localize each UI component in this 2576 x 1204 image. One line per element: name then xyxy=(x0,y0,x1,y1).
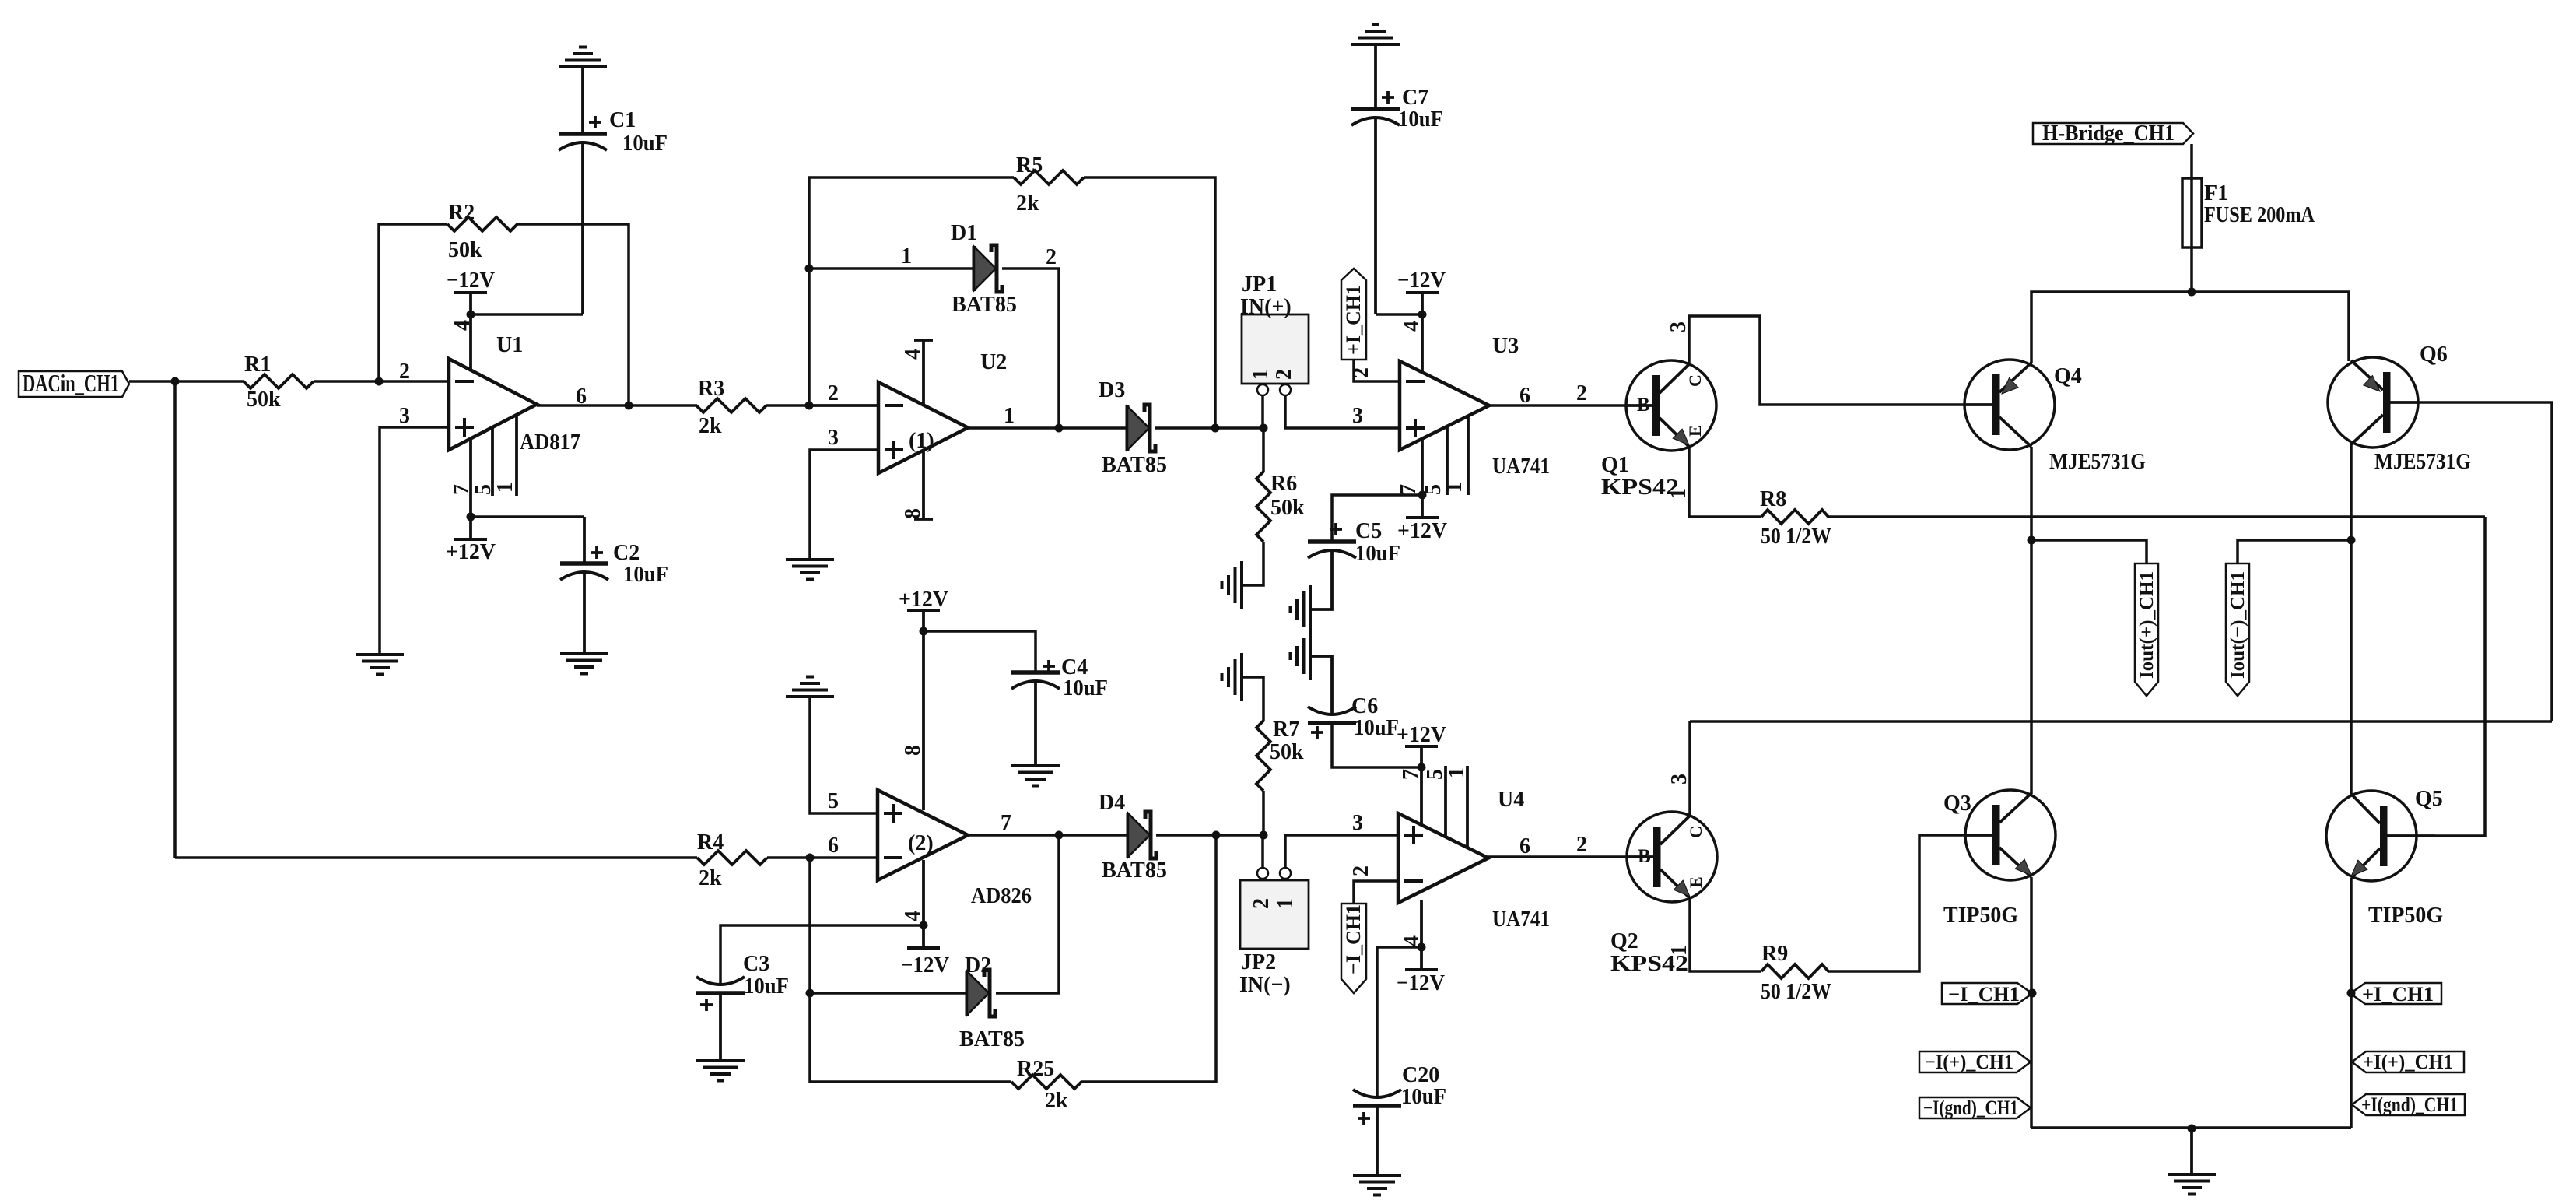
wire Q2 collector riser xyxy=(1688,721,1691,816)
svg-text:1: 1 xyxy=(1442,482,1467,493)
svg-text:D1: D1 xyxy=(951,221,977,245)
power +12V U3 xyxy=(1397,495,1447,543)
junction D2 riser on node xyxy=(1055,831,1064,840)
wire C1 stem lower xyxy=(581,142,584,314)
svg-text:UA741: UA741 xyxy=(1492,455,1550,479)
svg-text:C1: C1 xyxy=(609,108,636,132)
svg-text:U1: U1 xyxy=(496,333,523,357)
svg-text:50k: 50k xyxy=(247,388,281,412)
svg-text:5: 5 xyxy=(1423,769,1447,780)
capacitor C5 10uF xyxy=(1308,519,1400,566)
svg-text:AD817: AD817 xyxy=(520,430,580,455)
wire label to fuse xyxy=(2190,144,2193,187)
svg-text:5: 5 xyxy=(471,484,496,495)
svg-text:R5: R5 xyxy=(1016,153,1043,177)
op-amp U2 half (1) xyxy=(878,350,1007,473)
svg-text:D2: D2 xyxy=(965,953,991,978)
svg-text:2k: 2k xyxy=(699,414,722,438)
svg-text:BAT85: BAT85 xyxy=(952,293,1017,317)
junction input/R4 branch xyxy=(171,377,180,386)
power +12V U1 xyxy=(446,517,496,564)
svg-text:Iout(+)_CH1: Iout(+)_CH1 xyxy=(2136,571,2157,679)
svg-text:Q4: Q4 xyxy=(2054,364,2082,388)
transistor Q2 KPS42 xyxy=(1610,812,1717,976)
svg-text:−I_CH1: −I_CH1 xyxy=(1342,904,1365,974)
svg-text:10uF: 10uF xyxy=(1063,676,1108,700)
ground left of C6 xyxy=(1291,632,1311,680)
svg-text:6: 6 xyxy=(828,834,839,858)
resistor R9 50 1/2W xyxy=(1761,942,1831,1004)
op-amp U1 pin5 stub xyxy=(491,427,494,496)
wire D1 anode xyxy=(809,267,974,270)
wire C3 stem lower xyxy=(719,993,722,1061)
svg-text:2k: 2k xyxy=(1045,1089,1068,1113)
svg-text:+12V: +12V xyxy=(446,540,496,564)
wire U1 output xyxy=(537,404,697,407)
svg-text:D4: D4 xyxy=(1099,791,1125,815)
diode D3 BAT85 xyxy=(1099,378,1167,477)
wire +12V node to C2 xyxy=(471,515,584,518)
svg-text:2: 2 xyxy=(1349,865,1373,876)
wire C7 stem xyxy=(1374,118,1377,314)
svg-text:E: E xyxy=(1685,425,1705,437)
svg-text:C: C xyxy=(1685,374,1705,387)
net label DACin_CH1 xyxy=(19,369,129,397)
svg-text:50 1/2W: 50 1/2W xyxy=(1761,980,1831,1004)
wire R25 to D4 node xyxy=(1081,835,1216,1082)
svg-text:−12V: −12V xyxy=(1397,269,1446,293)
wire DACin branch to R4 xyxy=(175,856,697,859)
supply rail Q4-Q6 xyxy=(2031,292,2349,363)
svg-text:R8: R8 xyxy=(1760,487,1786,511)
wire R4 to U2b pin6 xyxy=(767,856,878,859)
svg-text:Q1: Q1 xyxy=(1601,453,1629,477)
capacitor C6 10uF xyxy=(1308,694,1399,740)
resistor R3 xyxy=(696,377,766,438)
ground left of R6 xyxy=(1222,561,1242,609)
svg-text:2: 2 xyxy=(1272,369,1296,380)
svg-text:10uF: 10uF xyxy=(622,132,668,156)
wire Q6 base to Q2 rail riser xyxy=(2418,402,2552,721)
svg-text:DACin_CH1: DACin_CH1 xyxy=(23,369,119,397)
svg-text:+I(+)_CH1: +I(+)_CH1 xyxy=(2363,1051,2453,1073)
wire Q1 emitter to R8 xyxy=(1689,447,1761,517)
power -12V U3 xyxy=(1397,269,1446,314)
junction R4 / D2 riser xyxy=(806,854,815,862)
svg-text:2: 2 xyxy=(1249,898,1274,909)
junction R3 / feedback riser xyxy=(805,402,814,410)
wire U1 pin3 to ground xyxy=(380,427,449,655)
svg-text:(2): (2) xyxy=(908,831,934,855)
svg-text:1: 1 xyxy=(1274,898,1298,909)
wire D2 riser xyxy=(996,835,1059,993)
junction Iout(+) branch xyxy=(2028,536,2036,545)
svg-text:+I_CH1: +I_CH1 xyxy=(2362,983,2434,1006)
svg-text:(1): (1) xyxy=(909,429,934,453)
svg-text:R9: R9 xyxy=(1761,942,1788,966)
svg-text:D3: D3 xyxy=(1099,378,1125,402)
diode D2 BAT85 xyxy=(959,953,1025,1051)
wire -I flag to U4 pin2 xyxy=(1354,881,1398,904)
svg-text:TIP50G: TIP50G xyxy=(1943,904,2018,928)
jumper JP1 IN(+) xyxy=(1240,272,1309,384)
wire JP2 pin1 to U4 xyxy=(1285,835,1398,868)
svg-text:Q5: Q5 xyxy=(2415,787,2443,811)
wire Q3 emitter riser xyxy=(2030,877,2033,1128)
svg-text:2: 2 xyxy=(1576,833,1587,857)
resistor R1 xyxy=(244,353,314,412)
op-amp U4 pin1 stub xyxy=(1466,766,1469,848)
op-amp U4 UA741 xyxy=(1398,788,1550,932)
svg-text:+I(gnd)_CH1: +I(gnd)_CH1 xyxy=(2361,1093,2458,1116)
svg-text:50k: 50k xyxy=(1270,496,1305,520)
svg-text:E: E xyxy=(1686,876,1705,888)
transistor Q6 MJE5731G xyxy=(2328,342,2471,474)
wire -12V node to C20 xyxy=(1377,947,1421,1099)
svg-text:JP1: JP1 xyxy=(1242,272,1277,297)
wire riser R4 node to R25 xyxy=(810,858,1011,1082)
wire U3 pin4 xyxy=(1421,314,1424,375)
wire ground stem xyxy=(2190,1129,2193,1174)
capacitor C1 10uF xyxy=(559,108,668,156)
resistor R7 vertical xyxy=(1243,677,1304,835)
svg-text:R25: R25 xyxy=(1017,1057,1054,1081)
ground above C7 xyxy=(1351,25,1400,45)
svg-text:7: 7 xyxy=(1001,811,1011,835)
svg-text:2: 2 xyxy=(828,381,839,405)
svg-text:2: 2 xyxy=(399,360,410,384)
wire JP1 pin2 to U3 xyxy=(1285,395,1400,428)
svg-text:7: 7 xyxy=(1397,484,1421,495)
svg-text:+12V: +12V xyxy=(1397,723,1446,747)
svg-text:2: 2 xyxy=(1576,381,1587,405)
power -12V U1 xyxy=(447,269,495,314)
svg-text:10uF: 10uF xyxy=(744,974,789,999)
svg-text:H-Bridge_CH1: H-Bridge_CH1 xyxy=(2042,121,2175,146)
svg-text:6: 6 xyxy=(1519,384,1530,408)
wire C6 stem upper xyxy=(1312,656,1332,714)
svg-text:+12V: +12V xyxy=(1397,519,1447,543)
power -12V U4 xyxy=(1397,947,1445,995)
ground bottom rail xyxy=(2168,1174,2216,1195)
power +12V U4 xyxy=(1397,723,1446,767)
svg-text:R6: R6 xyxy=(1270,472,1297,496)
op-amp U1 pin1 stub xyxy=(515,415,518,496)
svg-text:MJE5731G: MJE5731G xyxy=(2374,450,2471,474)
svg-text:3: 3 xyxy=(1352,811,1363,835)
junction ground stem xyxy=(2188,1125,2196,1133)
net flag +I(gnd)_CH1 xyxy=(2352,1093,2465,1116)
wire input node to U1 pin2 xyxy=(129,380,449,383)
junction R2 branch xyxy=(375,377,384,386)
wire R2 to U1 output xyxy=(517,224,629,405)
junction U1 out / R2 xyxy=(625,402,633,410)
wire U3 pin7 xyxy=(1421,436,1424,495)
fuse F1 200mA xyxy=(2182,178,2315,247)
svg-text:5: 5 xyxy=(828,789,839,813)
junction U4 pin4 xyxy=(1418,943,1426,952)
svg-text:4: 4 xyxy=(450,320,475,331)
junction R5 riser on node xyxy=(1211,424,1220,433)
resistor R2 xyxy=(447,201,517,262)
svg-text:B: B xyxy=(1637,395,1650,416)
wire C4 stem lower xyxy=(1034,681,1037,766)
net flag -I_CH1 vertical xyxy=(1341,904,1366,993)
wire Q6 emitter lower riser xyxy=(2350,444,2353,798)
svg-text:BAT85: BAT85 xyxy=(959,1027,1025,1051)
jumper JP2 IN(-) xyxy=(1239,880,1309,997)
svg-text:+I_CH1: +I_CH1 xyxy=(1342,285,1365,355)
transistor Q4 MJE5731G xyxy=(1964,360,2146,474)
svg-text:10uF: 10uF xyxy=(1401,1085,1446,1109)
svg-text:U3: U3 xyxy=(1492,334,1519,358)
net flag Iout(-)_CH1 vertical xyxy=(2226,563,2249,696)
wire fuse to rail xyxy=(2190,247,2193,292)
junction R25 riser on node xyxy=(1212,831,1221,840)
svg-text:F1: F1 xyxy=(2204,181,2228,205)
wire C7 stem upper xyxy=(1374,44,1377,109)
op-amp U1 AD817 xyxy=(449,333,580,455)
svg-text:1: 1 xyxy=(901,244,912,269)
svg-text:JP2: JP2 xyxy=(1241,950,1276,974)
wire Iout(-) branch xyxy=(2238,540,2351,563)
wire C20 stem lower xyxy=(1376,1106,1379,1175)
wire R9 to Q3 base xyxy=(1828,835,1966,971)
svg-text:Q6: Q6 xyxy=(2420,342,2448,367)
wire R3 to U2 pin2 xyxy=(766,404,878,407)
JP1 pad circles xyxy=(1257,384,1268,395)
svg-text:BAT85: BAT85 xyxy=(1102,858,1167,883)
svg-text:10uF: 10uF xyxy=(1354,716,1399,740)
svg-text:8: 8 xyxy=(901,745,925,756)
junction U2b pin4 node xyxy=(920,921,928,930)
junction U3 pin7 xyxy=(1418,491,1427,500)
wire -12V node to C1 xyxy=(471,313,583,316)
wire U2b pin8 xyxy=(922,631,925,810)
power +12V U2b xyxy=(899,588,948,631)
capacitor C20 10uF xyxy=(1353,1063,1446,1125)
svg-text:−12V: −12V xyxy=(447,269,495,293)
wire R5 to node xyxy=(1084,177,1215,428)
svg-text:2k: 2k xyxy=(1016,191,1039,216)
capacitor C3 10uF xyxy=(696,952,789,1011)
svg-text:3: 3 xyxy=(399,404,410,428)
svg-text:MJE5731G: MJE5731G xyxy=(2049,450,2146,474)
svg-text:3: 3 xyxy=(1352,404,1363,428)
wire C5 stem lower xyxy=(1312,550,1332,609)
ground left of C5 xyxy=(1291,585,1311,634)
wire U3 output xyxy=(1489,404,1626,407)
junction JP2 pin / R7 xyxy=(1260,831,1268,840)
wire +12V node to C5 xyxy=(1332,495,1422,542)
svg-text:−I(+)_CH1: −I(+)_CH1 xyxy=(1925,1051,2013,1073)
junction D1 branch xyxy=(805,265,814,273)
junction U1 pin7 node xyxy=(467,513,475,521)
svg-text:−12V: −12V xyxy=(1397,971,1445,995)
ground below C4 xyxy=(1011,766,1060,786)
net flag +I_CH1 vertical xyxy=(1341,269,1366,360)
wire D4 cathode to JP2 node xyxy=(1156,834,1263,837)
junction U4 pin7 xyxy=(1418,763,1426,772)
svg-text:TIP50G: TIP50G xyxy=(2368,904,2443,928)
junction JP1 pin1 / R6 xyxy=(1260,424,1268,433)
op-amp U3 pin1 stub xyxy=(1467,416,1470,495)
ground above U2b pin5 xyxy=(786,677,834,697)
capacitor C4 10uF xyxy=(1011,655,1108,700)
bottom ground rail xyxy=(2031,1126,2351,1129)
wire U2 output node line xyxy=(968,426,1127,430)
svg-text:4: 4 xyxy=(901,349,925,360)
wire U2b output node line xyxy=(968,834,1128,837)
wire Q5 emitter riser xyxy=(2350,878,2353,1128)
svg-text:IN(−): IN(−) xyxy=(1239,973,1291,997)
junction Iout(-) branch xyxy=(2347,536,2356,545)
svg-text:4: 4 xyxy=(901,911,925,921)
svg-text:−12V: −12V xyxy=(901,953,949,978)
JP2 pad circles xyxy=(1257,868,1268,879)
wire down to R4 line xyxy=(173,381,177,858)
svg-text:10uF: 10uF xyxy=(1398,107,1443,132)
svg-text:C3: C3 xyxy=(743,952,769,976)
capacitor C2 10uF xyxy=(560,541,668,587)
svg-text:C2: C2 xyxy=(613,541,640,565)
wire C1 stem upper xyxy=(581,67,584,134)
wire U2b pin5 to ground riser xyxy=(810,698,878,813)
capacitor C7 10uF xyxy=(1351,86,1443,132)
svg-text:3: 3 xyxy=(1667,321,1691,332)
svg-text:2: 2 xyxy=(1349,367,1373,378)
svg-text:3: 3 xyxy=(1667,774,1691,785)
ground U1 pin3 xyxy=(356,655,404,675)
junction D1 riser on node xyxy=(1055,424,1064,433)
op-amp U2 half (2) AD826 xyxy=(878,790,1032,908)
wire feedback riser to R5 xyxy=(809,177,1014,405)
net flag +I(+)_CH1 xyxy=(2352,1051,2464,1073)
wire Q4 emitter lower riser xyxy=(2030,447,2033,794)
wire +12V node to C6 xyxy=(1332,725,1421,767)
op-amp U2 pin8 stub xyxy=(901,448,933,519)
svg-text:Q3: Q3 xyxy=(1943,792,1971,816)
diode D4 BAT85 xyxy=(1099,791,1167,883)
svg-text:B: B xyxy=(1638,846,1651,867)
ground below C20 xyxy=(1353,1175,1401,1195)
wire R8 to right riser xyxy=(1828,515,2485,518)
svg-text:FUSE 200mA: FUSE 200mA xyxy=(2204,203,2315,227)
svg-text:10uF: 10uF xyxy=(1355,542,1400,566)
wire +I flag to U3 pin2 xyxy=(1354,360,1400,381)
net flag -I(+)_CH1 xyxy=(1919,1051,2031,1073)
svg-text:C5: C5 xyxy=(1355,519,1382,543)
transistor Q3 TIP50G xyxy=(1943,790,2056,928)
resistor R4 xyxy=(697,830,767,890)
net label H-Bridge_CH1 xyxy=(2033,121,2193,146)
svg-text:1: 1 xyxy=(1249,369,1273,380)
wire C2 stem lower xyxy=(583,572,586,654)
svg-text:R7: R7 xyxy=(1273,718,1299,742)
svg-text:−I(gnd)_CH1: −I(gnd)_CH1 xyxy=(1923,1097,2018,1119)
wire U4 pin4 xyxy=(1420,900,1423,947)
svg-text:8: 8 xyxy=(901,508,925,519)
svg-text:AD826: AD826 xyxy=(971,884,1032,908)
op-amp U3 pin5 stub xyxy=(1446,426,1449,495)
wire Q1 collector to Q4 base xyxy=(1689,316,1965,405)
svg-text:Q2: Q2 xyxy=(1610,929,1638,953)
wire U2 pin2 xyxy=(809,404,878,407)
resistor R5 xyxy=(1014,153,1084,216)
wire U1 pin4 xyxy=(469,314,472,374)
svg-text:R1: R1 xyxy=(244,353,271,377)
svg-text:C: C xyxy=(1686,826,1705,838)
wire D2 anode from R25 node xyxy=(810,992,967,995)
junction U1 pin4 node xyxy=(467,311,475,319)
svg-text:6: 6 xyxy=(1519,834,1530,858)
op-amp U3 UA741 xyxy=(1400,334,1550,479)
svg-text:IN(+): IN(+) xyxy=(1240,295,1292,319)
net flag -I_CH1 xyxy=(1942,983,2032,1006)
wire C2 stem upper xyxy=(583,517,586,563)
net flag Iout(+)_CH1 vertical xyxy=(2135,563,2158,696)
svg-text:R4: R4 xyxy=(697,830,724,855)
svg-text:1: 1 xyxy=(1667,945,1691,956)
ground U2 pin3 xyxy=(786,560,834,580)
svg-text:1: 1 xyxy=(493,482,517,493)
svg-text:7: 7 xyxy=(1399,769,1423,780)
resistor R25 xyxy=(1011,1057,1081,1113)
svg-text:50k: 50k xyxy=(1270,740,1304,764)
net flag +I_CH1 xyxy=(2350,983,2441,1006)
transistor Q1 KPS42 xyxy=(1601,360,1716,500)
wire Q2 emitter to R9 xyxy=(1690,898,1761,971)
wire D3 cathode to JP1 node xyxy=(1155,426,1263,430)
op-amp U2 pin4 stub xyxy=(901,340,933,408)
svg-text:−I_CH1: −I_CH1 xyxy=(1948,983,2020,1006)
ground below C3 xyxy=(696,1061,745,1081)
ground left of R7 xyxy=(1222,653,1242,701)
svg-text:7: 7 xyxy=(450,484,474,495)
svg-text:1: 1 xyxy=(1667,488,1691,499)
svg-text:1: 1 xyxy=(1445,767,1469,778)
junction R25 / C3 node xyxy=(806,989,815,998)
svg-text:3: 3 xyxy=(828,426,839,450)
svg-text:UA741: UA741 xyxy=(1492,907,1550,932)
ground above C1 xyxy=(559,47,607,68)
wire Iout(+) branch xyxy=(2031,540,2147,563)
wire U1 pin7 xyxy=(469,436,472,517)
transistor Q5 TIP50G xyxy=(2326,787,2443,928)
svg-text:C7: C7 xyxy=(1402,86,1428,110)
resistor R8 50 1/2W xyxy=(1760,487,1831,549)
wire R2 riser xyxy=(379,224,447,381)
junction -I_CH1 tip xyxy=(2028,989,2037,998)
wire JP1 pin1 to node xyxy=(1261,395,1264,428)
svg-text:2: 2 xyxy=(1046,245,1057,269)
svg-text:+12V: +12V xyxy=(899,588,948,612)
wire U4 output xyxy=(1488,855,1627,858)
power -12V U2b xyxy=(901,925,949,978)
svg-text:50 1/2W: 50 1/2W xyxy=(1761,525,1831,549)
ground below C2 xyxy=(560,654,608,674)
junction U2b pin8 node xyxy=(920,627,928,636)
op-amp U4 pin5 stub xyxy=(1444,766,1447,837)
svg-text:C20: C20 xyxy=(1402,1063,1439,1087)
svg-text:U4: U4 xyxy=(1498,788,1524,812)
junction fuse on rail xyxy=(2188,288,2196,297)
wire JP2 pin2 to node xyxy=(1261,835,1264,868)
wire D1 cathode down to node xyxy=(1002,269,1059,428)
wire +12V node to C4 xyxy=(924,631,1036,672)
wire -12V node to C3 xyxy=(720,925,924,985)
wire U2b pin4 xyxy=(922,860,925,925)
